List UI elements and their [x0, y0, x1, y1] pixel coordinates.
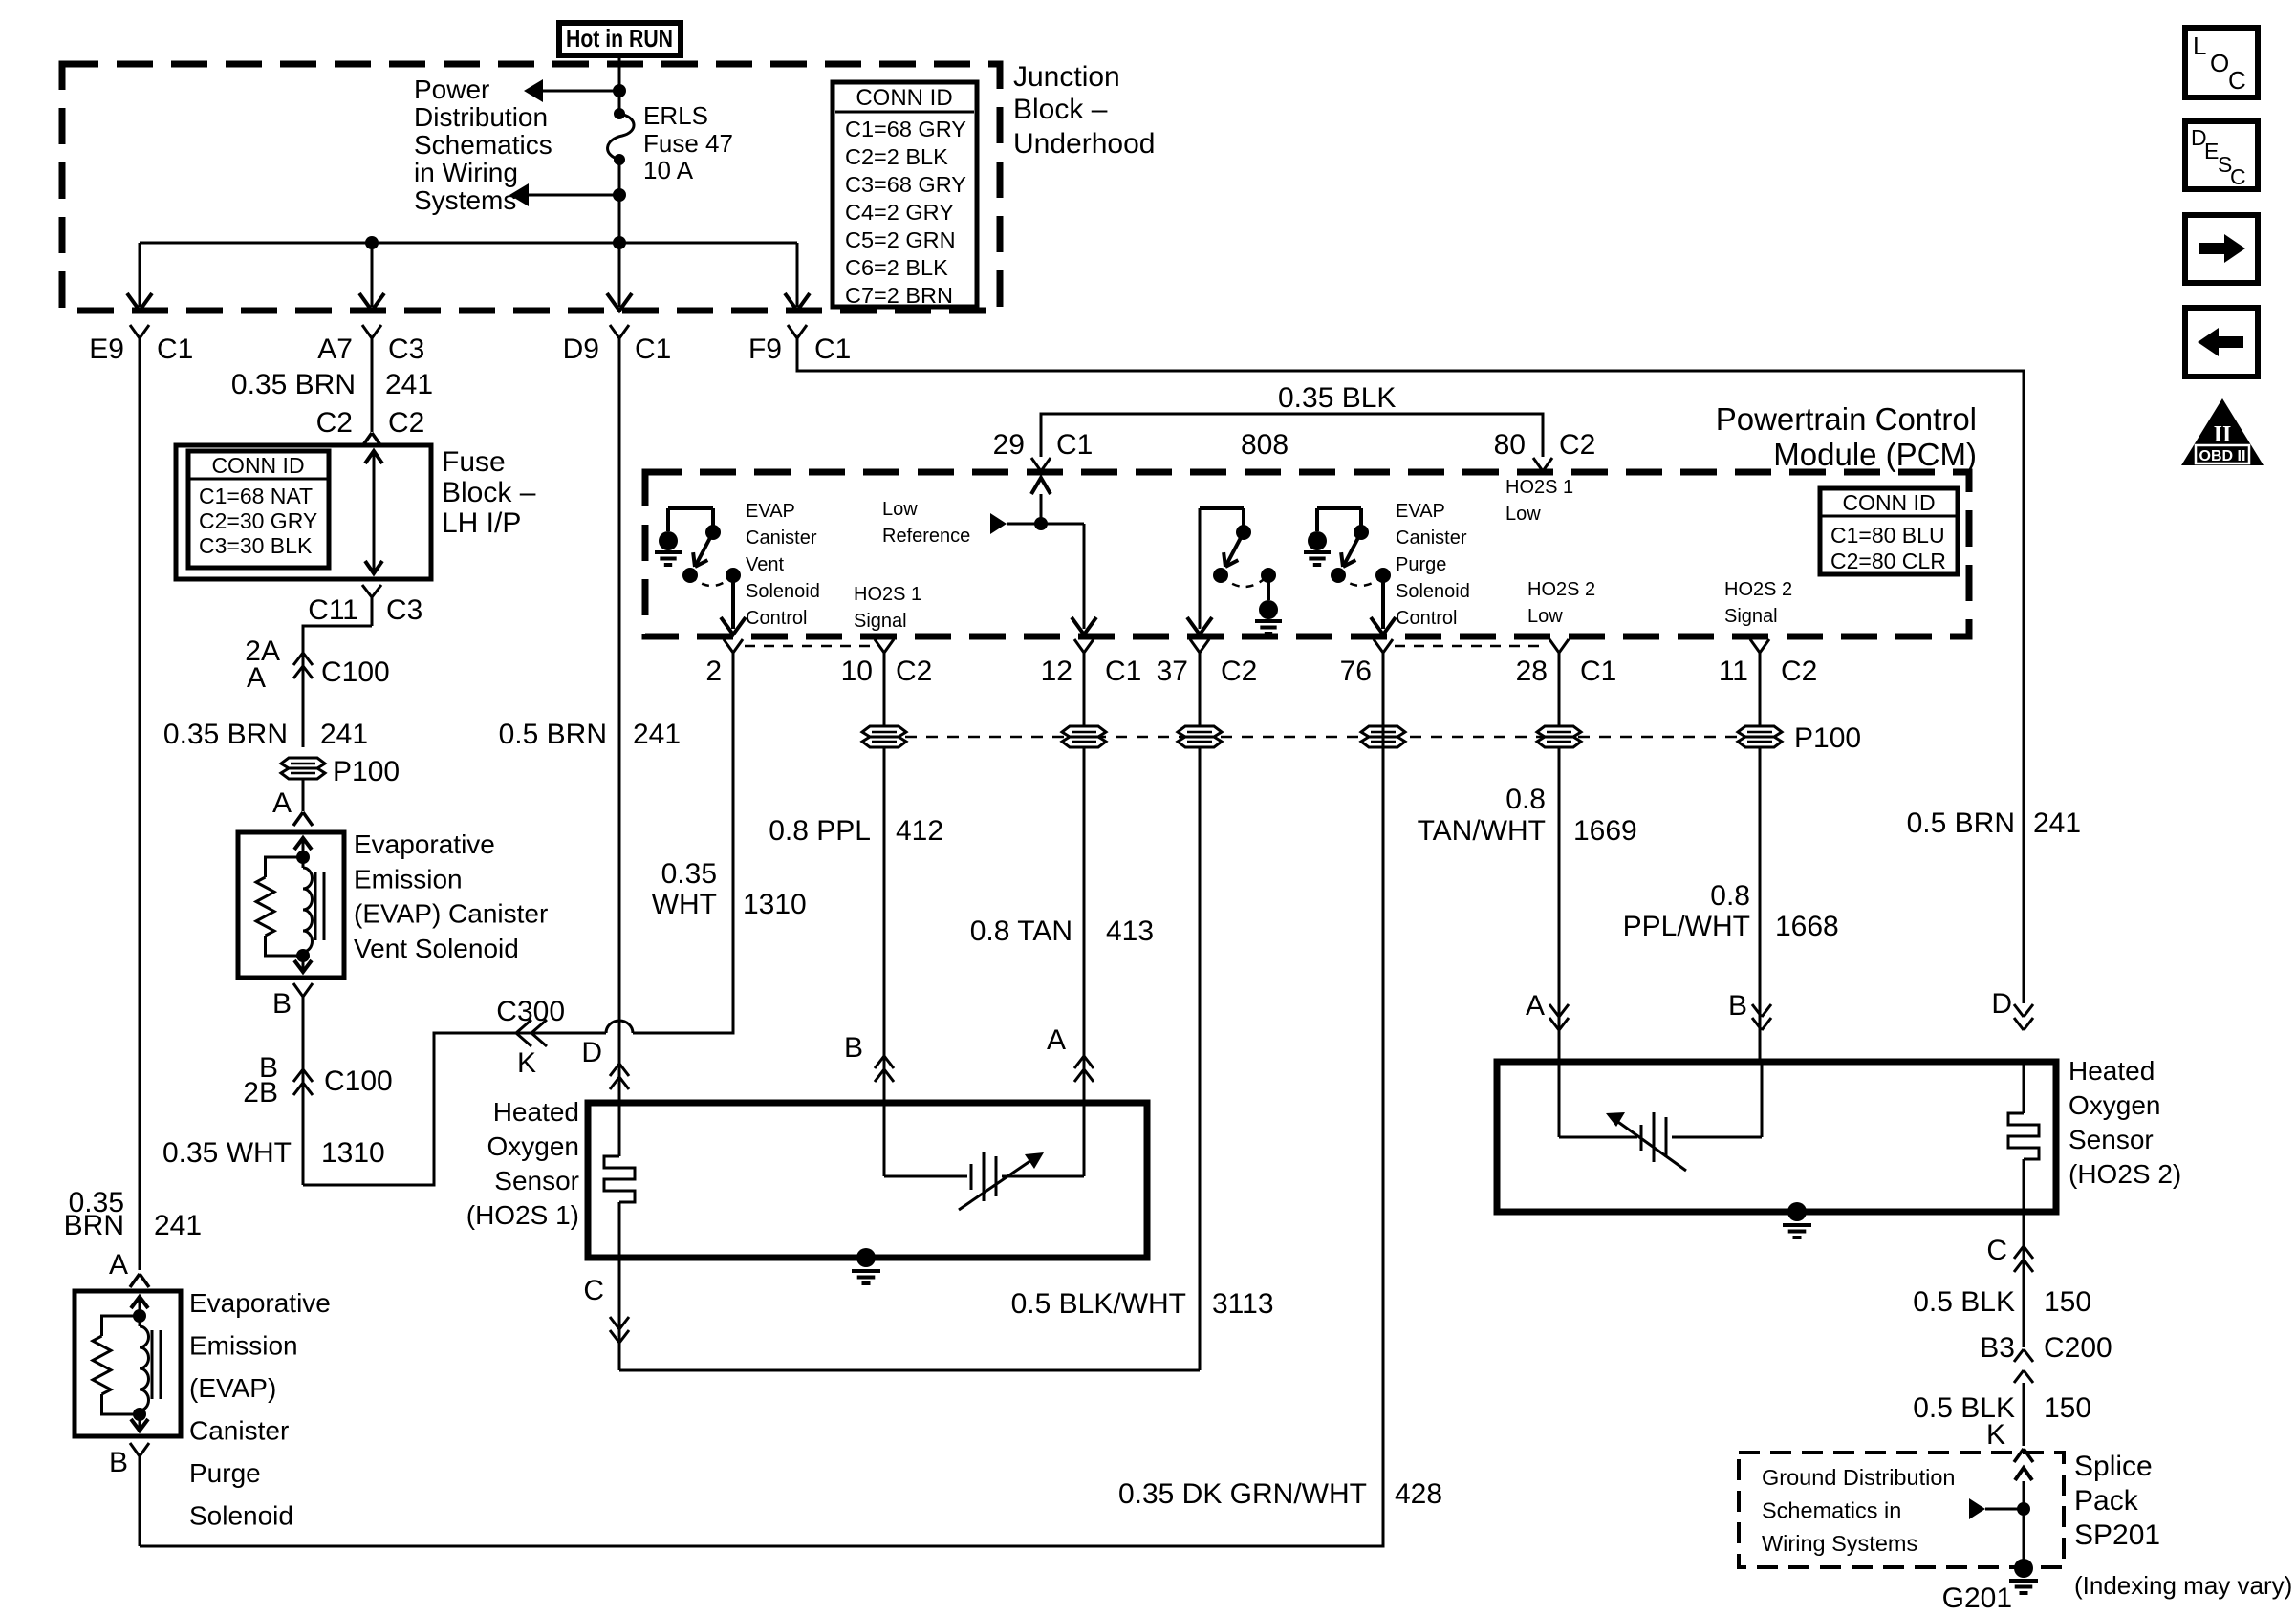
- svg-text:150: 150: [2044, 1286, 2091, 1318]
- svg-text:C7=2 BRN: C7=2 BRN: [845, 283, 953, 308]
- svg-text:Emission: Emission: [189, 1331, 298, 1361]
- svg-text:Splice: Splice: [2074, 1451, 2153, 1482]
- svg-text:Emission: Emission: [354, 864, 463, 894]
- svg-text:C2: C2: [896, 656, 932, 687]
- svg-text:PPL/WHT: PPL/WHT: [1623, 911, 1750, 942]
- svg-text:Wiring Systems: Wiring Systems: [1762, 1531, 1917, 1556]
- svg-text:B: B: [844, 1032, 863, 1064]
- svg-text:C2: C2: [1559, 429, 1595, 461]
- svg-text:C2: C2: [388, 407, 424, 439]
- svg-text:241: 241: [633, 719, 681, 750]
- svg-text:241: 241: [385, 369, 433, 400]
- svg-text:0.35 BRN: 0.35 BRN: [163, 719, 288, 750]
- svg-text:CONN ID: CONN ID: [856, 85, 952, 111]
- svg-text:0.35 DK GRN/WHT: 0.35 DK GRN/WHT: [1118, 1478, 1367, 1510]
- svg-text:II: II: [2214, 422, 2232, 447]
- svg-text:Oxygen: Oxygen: [487, 1131, 580, 1161]
- svg-text:B3: B3: [1980, 1332, 2015, 1364]
- svg-text:C1: C1: [1056, 429, 1093, 461]
- svg-text:(EVAP) Canister: (EVAP) Canister: [354, 899, 548, 929]
- svg-text:C2=80 CLR: C2=80 CLR: [1830, 549, 1946, 573]
- svg-text:C6=2 BLK: C6=2 BLK: [845, 255, 948, 280]
- svg-text:412: 412: [896, 815, 943, 847]
- svg-text:1669: 1669: [1573, 815, 1637, 847]
- svg-text:Evaporative: Evaporative: [189, 1288, 331, 1318]
- svg-text:EVAP: EVAP: [1396, 501, 1445, 522]
- svg-text:Canister: Canister: [746, 528, 817, 549]
- svg-text:(Indexing may vary): (Indexing may vary): [2074, 1571, 2292, 1600]
- svg-text:C100: C100: [321, 657, 390, 688]
- svg-text:0.8: 0.8: [1710, 880, 1750, 912]
- svg-text:Reference: Reference: [882, 526, 970, 547]
- svg-text:37: 37: [1157, 656, 1188, 687]
- svg-text:Schematics: Schematics: [414, 130, 552, 160]
- svg-text:3113: 3113: [1212, 1288, 1274, 1320]
- svg-text:EVAP: EVAP: [746, 501, 795, 522]
- svg-text:C: C: [2228, 66, 2246, 95]
- svg-text:B: B: [272, 988, 292, 1020]
- svg-text:Heated: Heated: [2069, 1056, 2155, 1086]
- svg-text:Canister: Canister: [189, 1416, 289, 1446]
- svg-text:A: A: [1047, 1024, 1066, 1056]
- svg-text:Low: Low: [1527, 606, 1563, 627]
- svg-text:Signal: Signal: [1724, 606, 1778, 627]
- svg-text:Solenoid: Solenoid: [189, 1501, 293, 1531]
- svg-text:C: C: [1986, 1235, 2007, 1266]
- svg-text:Low: Low: [1505, 504, 1541, 525]
- svg-text:K: K: [517, 1047, 536, 1079]
- svg-text:Low: Low: [882, 499, 918, 520]
- svg-text:C1: C1: [1105, 656, 1141, 687]
- svg-text:80: 80: [1494, 429, 1526, 461]
- svg-text:808: 808: [1241, 429, 1289, 461]
- svg-text:C11: C11: [308, 594, 358, 626]
- svg-text:Control: Control: [1396, 608, 1457, 629]
- svg-text:241: 241: [2033, 807, 2081, 839]
- svg-text:1310: 1310: [743, 889, 807, 920]
- svg-text:HO2S 1: HO2S 1: [1505, 477, 1573, 498]
- svg-text:C5=2 GRN: C5=2 GRN: [845, 227, 956, 252]
- svg-text:413: 413: [1106, 915, 1154, 947]
- svg-text:0.8 TAN: 0.8 TAN: [970, 915, 1072, 947]
- svg-text:241: 241: [154, 1210, 202, 1241]
- svg-text:in Wiring: in Wiring: [414, 158, 518, 187]
- svg-text:Purge: Purge: [189, 1458, 261, 1488]
- svg-text:G201: G201: [1942, 1583, 2012, 1610]
- svg-text:C2=30 GRY: C2=30 GRY: [199, 508, 317, 533]
- svg-text:C100: C100: [324, 1066, 393, 1097]
- svg-text:Heated: Heated: [493, 1097, 579, 1127]
- svg-text:TAN/WHT: TAN/WHT: [1418, 815, 1546, 847]
- svg-text:D: D: [1991, 988, 2012, 1020]
- svg-text:Underhood: Underhood: [1013, 128, 1155, 160]
- svg-text:C2=2 BLK: C2=2 BLK: [845, 144, 948, 169]
- svg-text:LH I/P: LH I/P: [442, 507, 521, 539]
- svg-text:E9: E9: [89, 334, 124, 365]
- svg-text:Evaporative: Evaporative: [354, 829, 495, 859]
- svg-text:Systems: Systems: [414, 185, 516, 215]
- svg-text:C2: C2: [1221, 656, 1257, 687]
- svg-text:Sensor: Sensor: [2069, 1125, 2154, 1154]
- svg-text:C1=68 NAT: C1=68 NAT: [199, 484, 313, 508]
- svg-text:Distribution: Distribution: [414, 102, 548, 132]
- svg-text:ERLS: ERLS: [643, 101, 708, 130]
- svg-text:428: 428: [1395, 1478, 1442, 1510]
- svg-text:CONN ID: CONN ID: [1842, 490, 1935, 515]
- svg-text:BRN: BRN: [64, 1210, 124, 1241]
- svg-text:12: 12: [1041, 656, 1072, 687]
- svg-text:Block –: Block –: [1013, 94, 1108, 125]
- svg-text:P100: P100: [1794, 722, 1861, 754]
- svg-text:29: 29: [993, 429, 1025, 461]
- svg-text:SP201: SP201: [2074, 1519, 2160, 1551]
- svg-text:Schematics in: Schematics in: [1762, 1498, 1901, 1523]
- svg-text:0.5 BLK/WHT: 0.5 BLK/WHT: [1011, 1288, 1186, 1320]
- svg-text:2: 2: [705, 656, 722, 687]
- svg-text:C1: C1: [814, 334, 851, 365]
- svg-text:L: L: [2193, 32, 2206, 60]
- svg-text:(HO2S 2): (HO2S 2): [2069, 1159, 2181, 1189]
- svg-text:A: A: [247, 662, 266, 694]
- svg-text:CONN ID: CONN ID: [211, 453, 304, 478]
- svg-text:Vent: Vent: [746, 554, 784, 575]
- svg-text:28: 28: [1516, 656, 1548, 687]
- svg-text:D9: D9: [563, 334, 599, 365]
- svg-text:WHT: WHT: [652, 889, 717, 920]
- svg-text:Signal: Signal: [854, 611, 907, 632]
- svg-text:C200: C200: [2044, 1332, 2112, 1364]
- svg-text:K: K: [1986, 1419, 2005, 1451]
- svg-text:Powertrain Control: Powertrain Control: [1716, 401, 1977, 437]
- svg-text:(EVAP): (EVAP): [189, 1373, 276, 1403]
- svg-text:C1: C1: [1580, 656, 1616, 687]
- svg-text:76: 76: [1340, 656, 1372, 687]
- svg-text:0.5 BRN: 0.5 BRN: [499, 719, 607, 750]
- svg-text:O: O: [2210, 49, 2229, 77]
- svg-text:C: C: [583, 1275, 604, 1306]
- svg-text:Fuse: Fuse: [442, 446, 506, 478]
- svg-text:Module (PCM): Module (PCM): [1773, 437, 1977, 472]
- svg-text:A: A: [109, 1249, 128, 1281]
- svg-text:Purge: Purge: [1396, 554, 1446, 575]
- svg-text:C2: C2: [316, 407, 353, 439]
- svg-text:HO2S 2: HO2S 2: [1724, 579, 1792, 600]
- svg-text:C1=80 BLU: C1=80 BLU: [1830, 523, 1945, 548]
- svg-text:Block –: Block –: [442, 477, 536, 508]
- svg-text:C3: C3: [386, 594, 422, 626]
- svg-text:Pack: Pack: [2074, 1485, 2139, 1517]
- svg-text:150: 150: [2044, 1392, 2091, 1424]
- svg-text:0.8 PPL: 0.8 PPL: [769, 815, 871, 847]
- svg-text:C4=2 GRY: C4=2 GRY: [845, 200, 954, 225]
- svg-text:C: C: [2230, 164, 2246, 189]
- svg-text:1310: 1310: [321, 1137, 385, 1169]
- svg-text:A7: A7: [317, 334, 353, 365]
- svg-text:D: D: [581, 1037, 602, 1068]
- svg-text:0.35 BLK: 0.35 BLK: [1278, 382, 1396, 414]
- svg-text:Junction: Junction: [1013, 61, 1120, 93]
- svg-text:P100: P100: [333, 756, 400, 787]
- svg-text:HO2S 1: HO2S 1: [854, 584, 921, 605]
- svg-text:10 A: 10 A: [643, 156, 694, 184]
- svg-text:Power: Power: [414, 75, 489, 104]
- svg-text:C3=68 GRY: C3=68 GRY: [845, 172, 966, 197]
- svg-text:C1: C1: [157, 334, 193, 365]
- svg-text:OBD II: OBD II: [2199, 448, 2246, 464]
- svg-text:0.35 WHT: 0.35 WHT: [162, 1137, 292, 1169]
- svg-text:Vent Solenoid: Vent Solenoid: [354, 934, 519, 963]
- svg-text:Sensor: Sensor: [494, 1166, 579, 1195]
- svg-text:0.35: 0.35: [661, 858, 717, 890]
- svg-text:C2: C2: [1781, 656, 1817, 687]
- svg-text:Solenoid: Solenoid: [1396, 581, 1470, 602]
- svg-text:2B: 2B: [243, 1077, 278, 1109]
- svg-text:10: 10: [841, 656, 873, 687]
- svg-text:Solenoid: Solenoid: [746, 581, 820, 602]
- svg-text:11: 11: [1719, 656, 1748, 687]
- svg-text:C1=68 GRY: C1=68 GRY: [845, 117, 966, 141]
- svg-text:B: B: [1728, 990, 1747, 1022]
- svg-text:A: A: [272, 787, 292, 819]
- svg-text:F9: F9: [748, 334, 782, 365]
- svg-text:0.35 BRN: 0.35 BRN: [231, 369, 356, 400]
- svg-text:B: B: [109, 1447, 128, 1478]
- svg-text:1668: 1668: [1775, 911, 1839, 942]
- svg-text:Canister: Canister: [1396, 528, 1467, 549]
- svg-text:A: A: [1526, 990, 1545, 1022]
- svg-text:Hot in RUN: Hot in RUN: [566, 24, 673, 53]
- svg-text:Ground Distribution: Ground Distribution: [1762, 1465, 1955, 1490]
- svg-text:Control: Control: [746, 608, 807, 629]
- svg-text:C3: C3: [388, 334, 424, 365]
- svg-text:HO2S 2: HO2S 2: [1527, 579, 1595, 600]
- svg-text:Fuse 47: Fuse 47: [643, 129, 733, 158]
- svg-text:C300: C300: [496, 996, 565, 1027]
- svg-text:0.5 BRN: 0.5 BRN: [1907, 807, 2015, 839]
- svg-text:C1: C1: [635, 334, 671, 365]
- svg-text:(HO2S 1): (HO2S 1): [466, 1200, 579, 1230]
- svg-text:0.5 BLK: 0.5 BLK: [1913, 1286, 2015, 1318]
- svg-text:0.8: 0.8: [1505, 784, 1546, 815]
- svg-text:Oxygen: Oxygen: [2069, 1090, 2161, 1120]
- svg-text:241: 241: [320, 719, 368, 750]
- svg-text:C3=30 BLK: C3=30 BLK: [199, 533, 313, 558]
